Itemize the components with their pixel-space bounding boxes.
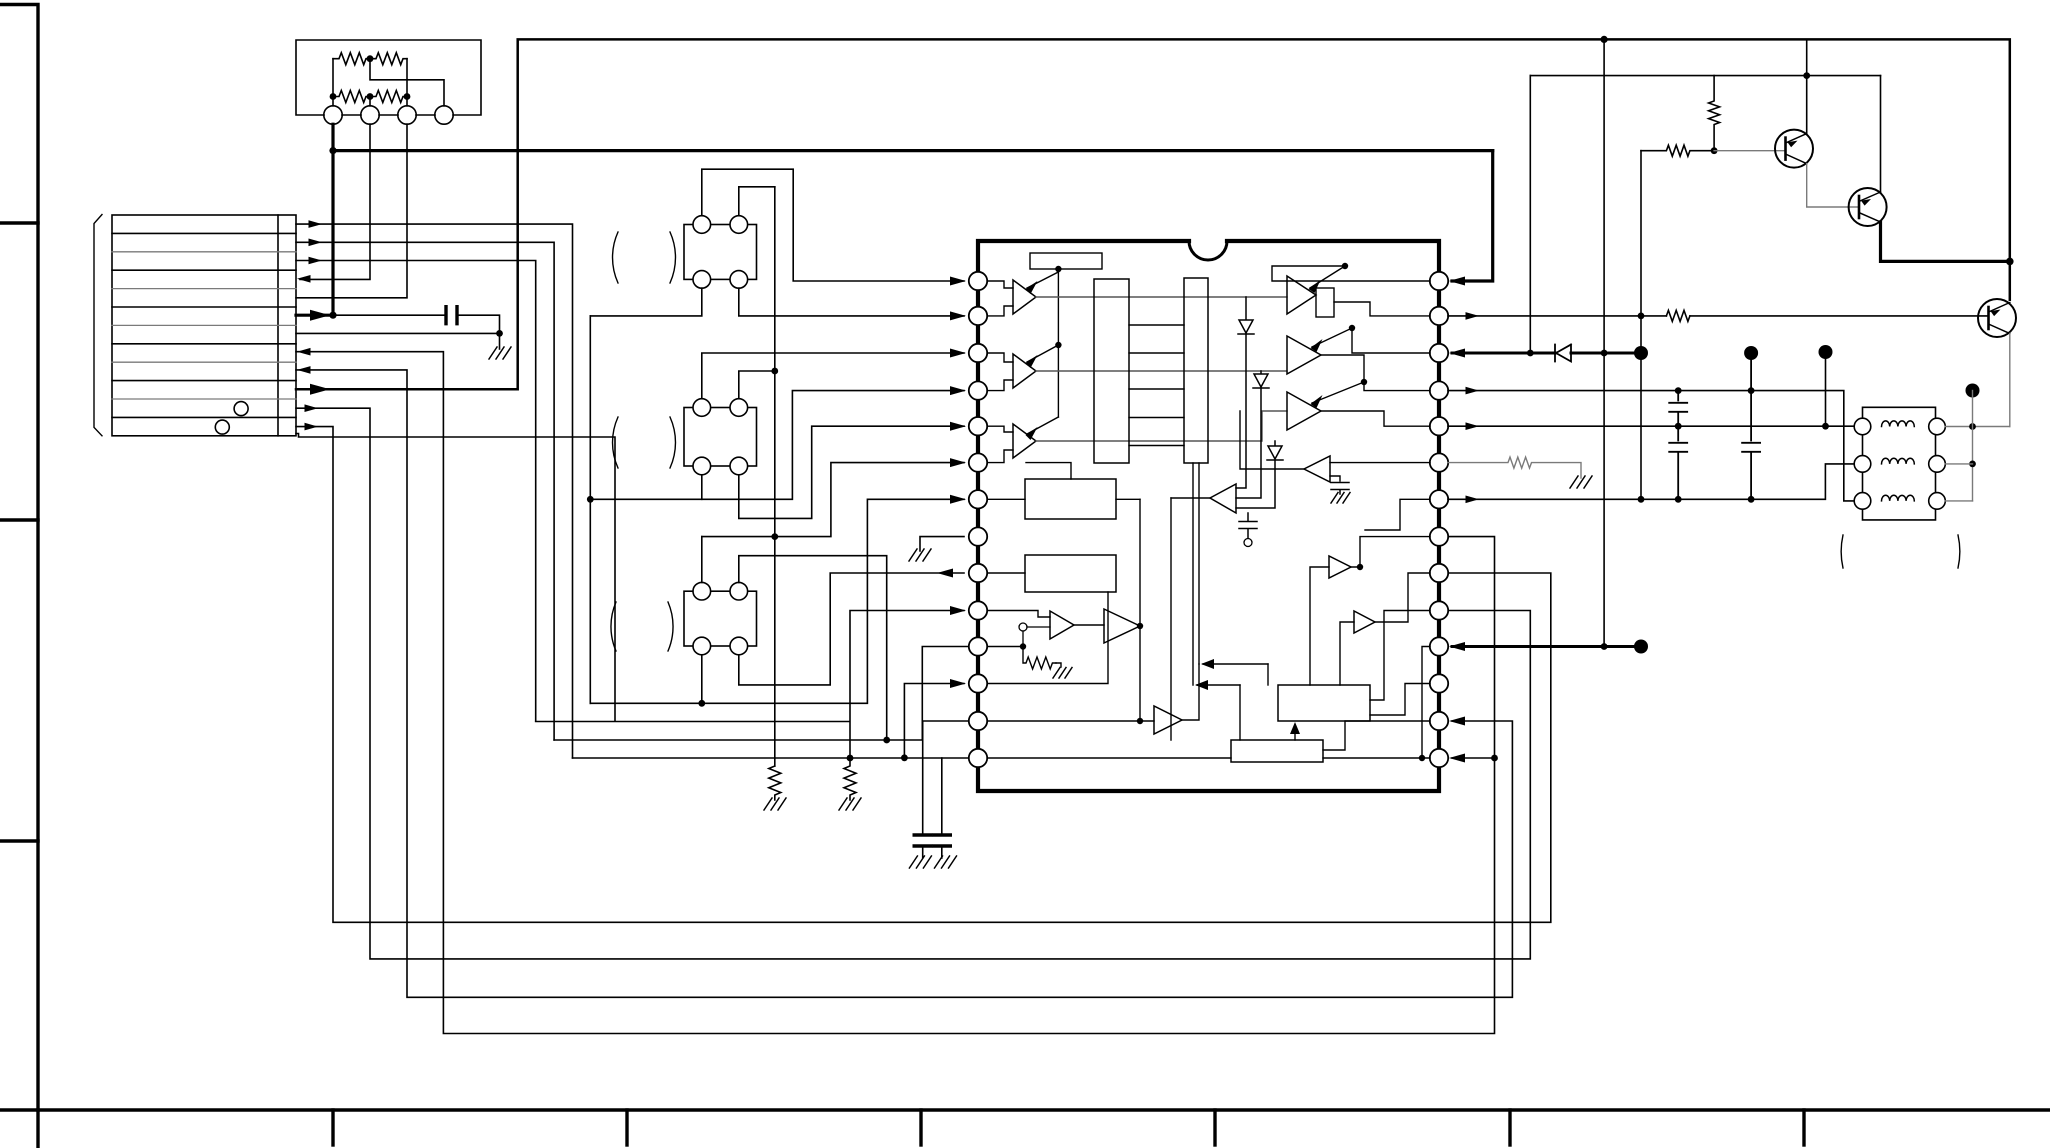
wire rung 4 [1129,417,1184,419]
frame tick y841 [0,839,38,842]
wire TA2 out [1171,497,1210,499]
IC U1 pin R8 [1430,527,1448,545]
wire T6 out to R5 [1321,411,1430,426]
frame bottom tick x921 [919,1110,922,1145]
diode D5 [1555,345,1571,362]
node dot rail x1806 [1803,72,1810,79]
node dot L11 [1020,643,1026,649]
resistor R_b [370,53,407,65]
wire A2 stub [369,97,371,106]
node dot R7 x1751 [1748,496,1755,503]
wire TR2 out to R9 [1375,573,1430,622]
connector P1 row line 8 [112,361,296,363]
arrow row10 thick [310,384,330,395]
wire right leg R_b down [406,59,408,97]
arrow row11 [305,404,319,412]
wire A3 stub [406,97,408,106]
node dot R2 x1641 [1638,313,1645,320]
connector P1 bracket [94,215,102,436]
arrow T6 fb into T6 [1312,382,1364,403]
wire TR1 out to R8 [1351,537,1430,567]
wire row7 gnd stub [499,333,501,349]
IC U1 pin L2 [969,307,987,325]
node dot R1 fb [1342,263,1348,269]
wire M1 right stub [1116,498,1140,500]
block matrix B [1184,278,1208,463]
motor terminal circle R2 [1929,456,1946,473]
IC U1 notch [1189,241,1227,260]
node dot R5 x1678 [1675,423,1682,430]
motor paren right [1958,535,1960,568]
arrow R5 out [1466,422,1480,430]
connector P1 row line 7 [112,343,296,345]
wire R7 line to motor row2 [1448,464,1854,499]
motor coil 3 [1882,495,1915,501]
node dot C2 bottom [1137,718,1143,724]
node dot x590 y499 [587,496,594,503]
diode D3 [1236,441,1283,508]
arrow into row9 [297,366,311,374]
motor terminal circle R3 [1929,493,1946,510]
head H3 coil circle BR [730,637,748,655]
wire y703 band to L10 [590,499,964,703]
wire L12 to M2 bottom [988,592,1109,684]
wire motor row3 right [1945,500,1972,502]
op-amp C2 [1104,609,1140,643]
motor terminal circle L2 [1854,456,1871,473]
frame bottom tick x1804 [1802,1110,1805,1145]
head H2 coil circle TL [693,399,711,417]
arrow into row8 [297,348,311,356]
node dot A1 bus at y150.6 [329,147,336,154]
wire top bus y150.6 thick [333,149,1493,152]
head H1 coil circle BL [693,271,711,289]
wire vertical x1641 [1640,151,1642,500]
head H2 paren left [613,417,618,468]
arrow into R13 [1449,717,1465,726]
frame tick y520 [0,518,38,521]
node dot R4 x1751 [1748,387,1755,394]
IC U1 pin L1 [969,272,987,290]
ground R6 [1570,476,1592,488]
connector P1 row line 9 [112,380,296,382]
wire Q2 emitter down thick [1881,222,2010,261]
head H3 body [684,591,757,646]
arrow Q3 emitter [1991,310,2001,317]
connector P1 row line 11 [112,416,296,418]
node dot R14 join [1491,755,1498,762]
wire head1 TR up to long vertical [739,187,775,216]
block logic B2 [1231,740,1323,762]
node dot x1604 top [1601,36,1608,43]
frame bottom border [0,1108,2050,1111]
wire head3 BL down [701,655,703,704]
wire head1 BR down to pin L2 [739,288,964,316]
wire C1 out [1074,624,1104,626]
capacitor C1 [446,307,457,324]
connector P1 row line 1 [112,232,296,234]
arrow row6 thick [310,310,330,321]
wire Q1 collector up [1806,39,1808,133]
wire R11 thick [1452,645,1641,648]
node dot R7 x1678 [1675,496,1682,503]
node dot R3 x1530 [1527,350,1534,357]
IC U1 pin L14 [969,749,987,767]
wire y499 band to L4 riser [590,391,964,500]
ground L8 [909,549,931,561]
arrow into R1 [1449,277,1465,286]
op-amp TA1 left facing [1304,456,1330,482]
wire R11 internal vertical [1422,647,1430,759]
wire B1 to R10 [1370,611,1430,701]
resistor R_c [333,91,370,103]
op-amp TR1 [1329,556,1351,578]
head H3 coil circle BL [693,637,711,655]
head H3 paren right [668,602,673,651]
connector P1 row line 10 [112,398,296,400]
op-amp TA2 left facing [1210,484,1236,513]
IC U1 pin R14 [1430,749,1448,767]
wire y737 band to L11 [554,647,978,741]
resistor Rv3 vertical [1709,76,1720,151]
frame bottom tick x38 [36,1110,39,1148]
wire R int to gnd [1056,663,1061,667]
connector P1 block outline [112,215,296,436]
op-amp TR2 [1354,611,1375,633]
resistor R2 series [1666,310,1690,321]
wire R14 internal [1323,757,1430,759]
IC U1 pin L5 [969,417,987,435]
arrow into R11 [1449,642,1465,651]
wire long vertical x775 [774,187,776,766]
arrow R2 out [1466,312,1480,320]
wire Rh1 to Q1 base [1714,150,1785,152]
wire row12 to loop A [296,427,1551,923]
node dot R4 x1678 [1675,387,1682,394]
wire v1240 [1239,685,1241,740]
node dot L14 cap tap [901,754,908,761]
wire R6 resistor [1448,457,1581,478]
node dot A1 bus at row6 [329,312,336,319]
ground TA1 [1331,493,1350,504]
wire rail y75 [1530,75,1880,77]
arrow into L12 [950,679,966,688]
wire A1 input jogs [988,281,1014,316]
arrow into R14 [1449,754,1465,763]
wire rung 1 [1129,324,1184,326]
capacitor C4 upper [1669,391,1687,427]
wire A3 input jogs [988,426,1014,462]
IC U1 pin R10 [1430,601,1448,619]
node dot x922 y737 [883,737,890,744]
wire double vertical left [1192,463,1194,685]
wire TP3 drop [1825,352,1827,426]
arrow R7 out [1466,496,1480,504]
IC U1 pin L3 [969,344,987,362]
bias circle under cap [1244,539,1252,547]
wire head1 TL up and over to pin L1 [702,169,964,281]
wire row6 to capacitor C1 [333,314,446,316]
arrow into L5 [950,422,966,431]
arrow bias into amp3 [1027,417,1058,434]
node dot R11 x1604 [1601,643,1608,650]
wire row7 out [296,332,500,334]
motor paren left [1841,535,1843,568]
arrow into L1 [950,277,966,286]
diode D2 [1236,371,1269,498]
arrow row2 [309,239,323,247]
IC U1 pin L6 [969,453,987,471]
head H1 body [684,225,757,280]
wire row10 thick power loop [296,39,2010,389]
arrow into L2 [950,311,966,320]
resistor Rh1 [1641,145,1714,156]
wire row8 in from loop D [296,352,1495,1034]
wire TA1 cap stub [1330,476,1340,481]
capacitor int C [1239,513,1257,538]
wire TA2 path vertical [1170,498,1172,740]
wire T4 out to R2 [1334,302,1430,316]
motor terminal circle L1 [1854,418,1871,435]
wire A2 input jogs [988,353,1014,391]
resistor R_a [333,53,370,65]
wire y536 band to L6 riser [702,463,964,537]
wire motor row1 right [1945,426,2010,428]
wire R14 stub [1452,757,1495,759]
wire A2 to row4 [300,124,370,279]
wire head1 BL down [590,288,702,316]
IC U1 pin R7 [1430,490,1448,508]
wire head2 BL down [701,475,703,500]
wire A1 stub [332,97,334,106]
node dot y261 [2006,258,2014,266]
node dot Rv3 bottom [1711,147,1718,154]
node dot R3 x1604 [1601,350,1608,357]
wire L14 internal [988,757,1232,759]
wire B2 to R13 [1323,721,1430,750]
node dot x775 y536 [771,533,778,540]
wire row9 in from loop C [296,370,1512,997]
resistor R int [1023,647,1056,670]
wire bias vertical [1057,269,1059,417]
wire row1 line to pin L14 [573,757,979,759]
IC U1 pin L13 [969,712,987,730]
arrow into row4 [297,275,311,283]
node dot TR1 out [1357,564,1363,570]
IC U1 pin L8 [969,527,987,545]
frame bottom tick x333 [331,1110,334,1145]
wire A3 out [1036,411,1287,441]
head H1 paren left [613,232,618,283]
wire R3 internal [1352,328,1430,353]
node dot x775 y371 [771,368,778,375]
arrow Q1 emitter [1788,141,1798,148]
wire head2 TL up to pin L3 [702,353,964,399]
head H3 coil circle TL [693,582,711,600]
wire cross link to pin A4 [370,59,444,106]
head H2 coil circle BR [730,457,748,475]
ground Rv1 [764,798,786,810]
motor terminal circle L3 [1854,493,1871,510]
arrow into L3 [950,349,966,358]
arrow into L10 [950,606,966,615]
op-amp C1 small [1050,611,1074,639]
ground R int [1053,668,1072,679]
capacitor C3 [934,835,951,846]
IC U1 pin L12 [969,674,987,692]
connector P1 row line 2 [112,251,296,253]
ground row7 [489,347,511,359]
block bias rect top [1030,253,1102,269]
block matrix A [1094,279,1129,463]
diode D1 [1236,297,1254,488]
head H1 paren right [670,232,675,283]
head H2 coil circle BL [693,457,711,475]
connector P1 row line 4 [112,288,296,290]
IC U1 pin L10 [969,601,987,619]
arrow R3 fb into T5 [1312,328,1352,347]
connector pin circle A3 [398,106,416,124]
arrow mid L9 pointing left [937,569,953,578]
wire double vertical right [1198,463,1200,664]
wire R1 internal [1272,266,1430,281]
resistor Rv2 x849 [844,758,856,800]
op-amp A3 [1013,424,1036,458]
IC U1 pin R5 [1430,417,1448,435]
arrow row1 [309,220,323,228]
node dot row2 left [330,93,337,100]
node dot R5 x1825 [1822,423,1829,430]
wire row1 out [296,224,573,758]
wire rung 2 [1129,352,1184,354]
connector P1 row line 5 [112,306,296,308]
node dot head3 BL join [698,700,705,707]
wire TR1 in [1310,567,1329,685]
node dot bias top [1055,266,1061,272]
node dot R11 internal [1419,755,1425,761]
IC U1 pin R4 [1430,381,1448,399]
wire head3 TL up to y536 band [701,537,703,583]
wire head3 TR up to L7 riser [739,556,887,740]
wire L9 to M2 [988,572,1026,574]
arrow into L4 [950,386,966,395]
IC U1 pin R1 [1430,272,1448,290]
node dot row7 gnd [496,330,503,337]
arrow into L7 [950,495,966,504]
wire motor common vertical [1972,391,1974,501]
transistor Q1 [1775,130,1813,168]
IC U1 pin L11 [969,637,987,655]
wire B1 to R12 [1370,684,1430,716]
connector pin circle A4 [435,106,453,124]
wire row11 to loop B [296,408,1530,959]
head H3 paren left [611,602,616,651]
wire motor row2 right [1945,463,1972,465]
block sense M2 [1025,555,1116,592]
frame bottom tick x1215 [1213,1110,1216,1145]
wire bus drop to pin R1 thick [1452,151,1493,281]
motor coil 1 [1882,421,1915,427]
ground C3 [935,856,957,868]
arrow bias into amp1 [1027,272,1058,288]
wire A1 bus thick [331,124,334,315]
op-amp T6 [1287,392,1321,430]
arrow R1 fb into T4 [1310,266,1345,288]
wire rung 5 [1129,445,1184,447]
wire R7 internal [1365,499,1430,530]
frame bottom tick x1510 [1508,1110,1511,1145]
wire C3 out [1182,664,1199,720]
ground C2 [909,856,931,868]
node dot bias mid [1055,342,1061,348]
wire R5 line to motor [1448,425,1854,427]
connector pin circle A2 [361,106,379,124]
arrow R4 out [1466,387,1480,395]
connector P1 key circle a [234,402,248,416]
wire arrow line into x1199 [1203,663,1268,665]
wire M1 top stub [1026,463,1071,479]
resistor R_d [370,91,407,103]
wire B2 up arrow [1294,726,1296,740]
motor M1 box [1863,407,1936,520]
op-amp T4 [1287,276,1316,314]
arrow row12 [305,423,319,431]
wire left leg to row2 [332,59,334,97]
wire row6 thick arrow segment [296,314,333,317]
wire C2 to gnd [922,846,924,858]
wire R6 internal to TA1 [1330,462,1430,464]
wire T5 out to R4 [1321,355,1430,391]
arrow row3 [309,257,323,265]
connector CN top box outline [296,40,481,115]
node dot row2 mid [367,93,374,100]
arrow bias into amp2 [1027,345,1058,362]
head H3 coil circle TR [730,582,748,600]
resistor Rv1 x775 [769,766,781,800]
IC U1 pin L7 [969,490,987,508]
wire TR2 in [1340,622,1354,685]
big dot TP1 [1634,346,1648,360]
capacitor TA1 [1331,483,1349,495]
wire R2 line to Q3 base [1448,315,1989,317]
arrow into L6 [950,458,966,467]
frame bottom tick x627 [625,1110,628,1145]
wire head2 TR up to x775 [739,371,775,399]
node dot row2 right [404,93,411,100]
head H2 paren right [670,417,675,468]
wire R3 thick with arrow [1452,352,1641,355]
node dot motor common row2 [1969,461,1976,468]
wire vertical x1604 [1603,39,1605,646]
frame left border [0,5,38,1111]
wire Q2 collector up [1880,76,1882,192]
connector P1 inner column line [277,215,279,436]
head H2 coil circle TR [730,399,748,417]
wire A3 to row5 [296,124,407,298]
motor terminal circle R1 [1929,418,1946,435]
head H1 coil circle TL [693,216,711,234]
head H1 coil circle BR [730,271,748,289]
wire row2 out [296,242,554,740]
big dot TP5 [1966,384,1980,398]
wire head2 BR down to L5 riser [739,426,964,518]
node dot motor common row1 [1969,423,1976,430]
wire A1 out [1036,296,1287,298]
IC U1 pin L4 [969,381,987,399]
IC U1 pin R12 [1430,674,1448,692]
wire TA1 out [1240,411,1304,469]
big dot TP4 [1634,640,1648,654]
